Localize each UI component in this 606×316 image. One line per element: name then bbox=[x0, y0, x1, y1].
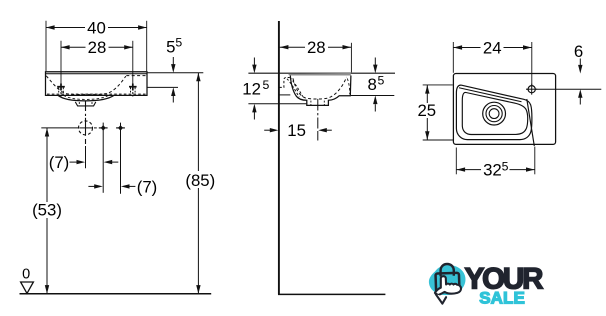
dimension (7) first bbox=[49, 153, 119, 172]
logo blob bbox=[429, 265, 466, 295]
dimension 5.5 bbox=[147, 36, 203, 103]
svg-text:(85): (85) bbox=[185, 171, 215, 190]
dimension 24 bbox=[453, 38, 532, 85]
svg-text:32: 32 bbox=[483, 161, 502, 180]
tap deck hidden edge (dashed) bbox=[126, 75, 146, 77]
svg-text:6: 6 bbox=[574, 42, 583, 61]
svg-text:0: 0 bbox=[22, 266, 30, 282]
basin side inner bowl (dashed) bbox=[293, 77, 347, 99]
logo hand bbox=[435, 276, 461, 295]
dimension 40 bbox=[46, 18, 147, 71]
front rim cut surface (gray) bbox=[46, 73, 147, 74]
dimension 25 bbox=[417, 85, 453, 140]
dimension 32.5 bbox=[456, 147, 535, 180]
basin bottom hidden edge (dashed) bbox=[47, 93, 146, 95]
tap hole top view bbox=[526, 84, 537, 95]
ceramic outline top bbox=[453, 74, 555, 145]
basin back bottom edge bbox=[279, 94, 290, 96]
bowl underside inner arc (dashed) bbox=[64, 95, 109, 99]
svg-text:28: 28 bbox=[88, 38, 107, 57]
drain fitting dashed ticks side bbox=[311, 101, 324, 106]
datum triangle bbox=[21, 282, 34, 293]
bowl rim inner diagonal bbox=[459, 88, 522, 102]
bowl outer outline top bbox=[456, 85, 532, 140]
svg-text:40: 40 bbox=[87, 18, 106, 37]
basin front inner edge (dashed) bbox=[347, 79, 349, 95]
dimension (85) bbox=[183, 73, 218, 294]
dimension 28 bbox=[61, 38, 133, 57]
svg-text:(7): (7) bbox=[137, 177, 158, 196]
svg-text:5: 5 bbox=[166, 37, 175, 56]
supply hole symbol 2 bbox=[116, 123, 125, 194]
svg-text:24: 24 bbox=[483, 38, 502, 57]
svg-text:(53): (53) bbox=[32, 201, 62, 220]
svg-text:8: 8 bbox=[368, 75, 377, 94]
drain centerline side bbox=[317, 99, 319, 141]
deck slant edge bbox=[527, 99, 535, 146]
logo bag handle bbox=[441, 264, 454, 276]
svg-text:15: 15 bbox=[287, 121, 306, 140]
dimension 15 bbox=[264, 121, 332, 140]
supply hole symbol 1 bbox=[99, 123, 108, 193]
drain hole symbol bbox=[79, 121, 93, 135]
logo wrist bbox=[436, 294, 446, 303]
svg-text:5: 5 bbox=[175, 36, 182, 50]
drain fitting front bbox=[75, 102, 96, 106]
dimension 12.5 bbox=[242, 58, 306, 120]
wall line bbox=[278, 21, 280, 294]
svg-text:12: 12 bbox=[242, 80, 261, 99]
dimension 28 side bbox=[280, 38, 352, 72]
dimension (7) second bbox=[88, 177, 157, 196]
wall anchor left bbox=[57, 41, 65, 97]
svg-text:5: 5 bbox=[378, 74, 385, 88]
drain centerline front bbox=[85, 101, 87, 169]
drain circles top bbox=[483, 102, 506, 125]
bowl inner outline top bbox=[462, 92, 527, 134]
svg-text:28: 28 bbox=[307, 38, 326, 57]
ground line left bbox=[20, 293, 212, 295]
bowl underside arc bbox=[58, 95, 114, 101]
dimension (53) bbox=[31, 128, 63, 294]
dimension 6 bbox=[526, 42, 601, 104]
floor line bbox=[278, 293, 385, 295]
drain fitting dashed ticks bbox=[79, 102, 92, 106]
svg-text:25: 25 bbox=[417, 101, 436, 120]
rim cut surface (gray) bbox=[288, 73, 351, 76]
rim top reference line bbox=[248, 72, 395, 74]
logo shopping bag bbox=[435, 273, 459, 293]
fixture holes reference line bbox=[41, 127, 97, 129]
svg-text:(7): (7) bbox=[49, 153, 70, 172]
basin outline front bbox=[46, 72, 148, 96]
svg-text:5: 5 bbox=[263, 78, 270, 92]
dimension 8.5 bbox=[351, 58, 395, 112]
svg-text:5: 5 bbox=[502, 160, 509, 174]
basin side outline bbox=[290, 76, 351, 106]
wall anchor right bbox=[129, 41, 137, 97]
svg-text:SALE: SALE bbox=[479, 288, 525, 307]
mounting bracket hidden (dashed) bbox=[279, 78, 302, 98]
bowl inner contour (dashed) bbox=[46, 76, 126, 95]
